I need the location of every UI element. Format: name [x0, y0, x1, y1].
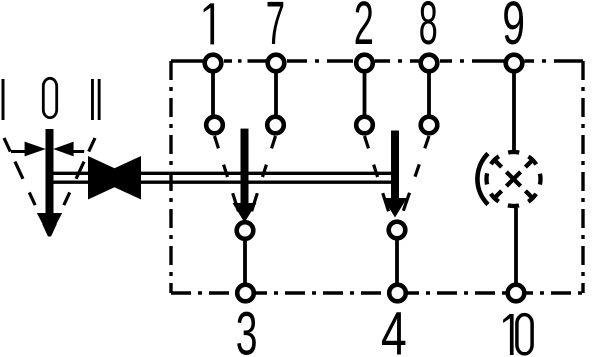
svg-text:4: 4: [381, 299, 407, 357]
svg-text:8: 8: [419, 0, 438, 58]
svg-text:3: 3: [236, 300, 258, 357]
svg-text:2: 2: [354, 0, 374, 57]
svg-text:7: 7: [266, 0, 285, 58]
svg-text:9: 9: [502, 0, 525, 58]
